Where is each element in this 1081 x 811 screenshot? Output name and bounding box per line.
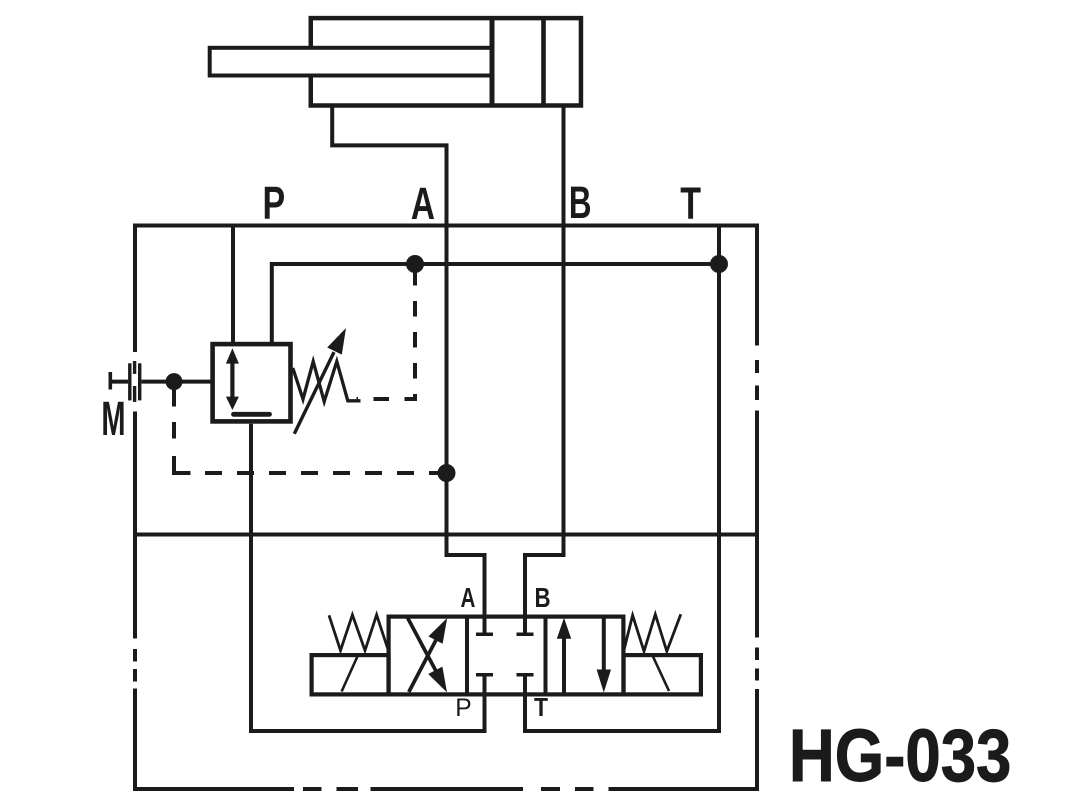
svg-text:A: A bbox=[411, 179, 435, 229]
svg-text:T: T bbox=[680, 177, 701, 229]
svg-text:P: P bbox=[262, 177, 285, 229]
svg-text:T: T bbox=[534, 694, 548, 723]
svg-text:A: A bbox=[461, 583, 476, 614]
svg-text:HG-033: HG-033 bbox=[789, 715, 1011, 798]
svg-text:P: P bbox=[455, 695, 471, 722]
svg-text:M: M bbox=[101, 393, 125, 446]
svg-text:B: B bbox=[534, 583, 550, 614]
svg-text:B: B bbox=[569, 178, 592, 228]
